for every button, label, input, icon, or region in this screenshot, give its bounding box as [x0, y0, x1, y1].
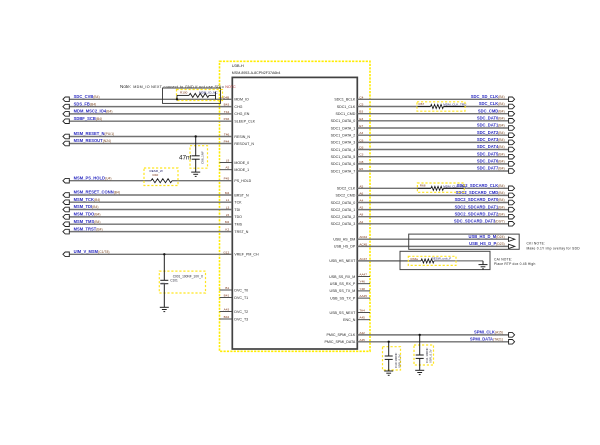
svg-text:MSM_TDO(B4): MSM_TDO(B4) — [74, 212, 101, 217]
svg-text:SDC1_CMD: SDC1_CMD — [336, 112, 356, 116]
svg-text:SDC_DAT2(B4): SDC_DAT2(B4) — [477, 130, 505, 135]
svg-text:MSM_RESET_CONN(B4): MSM_RESET_CONN(B4) — [74, 190, 120, 195]
svg-text:USB_HS_D_P(D23): USB_HS_D_P(D23) — [469, 241, 504, 246]
svg-text:SDC1_DATA_4: SDC1_DATA_4 — [331, 148, 356, 152]
svg-text:CHG: CHG — [234, 105, 242, 109]
svg-text:U3B-H: U3B-H — [232, 63, 244, 68]
svg-text:E5: E5 — [359, 167, 363, 171]
svg-text:TRST_N: TRST_N — [234, 230, 248, 234]
svg-text:UIM_V_MSM(C1/T8): UIM_V_MSM(C1/T8) — [74, 249, 110, 254]
svg-text:SDC_DAT4(B4): SDC_DAT4(B4) — [477, 144, 505, 149]
svg-text:USB_HS_DM: USB_HS_DM — [333, 238, 355, 242]
resistor R100 on MDM_IO — [177, 90, 223, 101]
group box around NEXT resistor — [400, 251, 490, 269]
svg-text:C4: C4 — [359, 95, 363, 99]
ground for USB_HS_NEXT resistor — [482, 261, 484, 265]
svg-text:MDM_IO: MDM_IO — [234, 98, 249, 102]
svg-text:SDC_SD_CLK(B4): SDC_SD_CLK(B4) — [471, 94, 505, 99]
off-page connector for MSM_TDO — [63, 215, 69, 220]
pin stub DVC_T1 — [220, 297, 233, 299]
svg-text:USB_HS_NEXT: USB_HS_NEXT — [329, 259, 356, 263]
svg-text:SDC2_SDCARD_DAT0(B4): SDC2_SDCARD_DAT0(B4) — [455, 197, 505, 202]
off-page connector for SDC_DAT1 — [509, 126, 515, 131]
svg-text:AC45: AC45 — [359, 242, 367, 246]
off-page connector for SDC2_SDCARD_DAT2 — [509, 214, 515, 219]
svg-text:R100: R100 — [180, 91, 188, 95]
svg-text:TCK: TCK — [234, 201, 242, 205]
svg-text:A2: A2 — [359, 220, 363, 224]
off-page connector for MSM_PS_HOLD — [63, 178, 69, 183]
off-page connector for SDC2_SDCARD_CLK — [509, 186, 515, 191]
svg-text:USB_SS_RX_M: USB_SS_RX_M — [329, 275, 355, 279]
svg-text:USB_SS_TX_P: USB_SS_TX_P — [330, 296, 356, 300]
wire net SPMI_DATA — [357, 341, 508, 343]
capacitor C101 on UIM_V_MSM — [159, 254, 205, 307]
off-page connector for SDC_DAT4 — [509, 147, 515, 152]
wire net SDC2_SDCARD_CMD — [357, 194, 508, 196]
svg-text:SDC1_DATA_2: SDC1_DATA_2 — [331, 134, 356, 138]
svg-text:C8: C8 — [359, 160, 363, 164]
svg-text:P46: P46 — [224, 117, 230, 121]
svg-text:X5R_6.3V: X5R_6.3V — [397, 354, 401, 368]
svg-text:R67: R67 — [419, 102, 425, 106]
pin stub USB_SS_NEXT — [357, 312, 370, 314]
wire net SDC2_SDCARD_CLK (right segment) — [444, 187, 509, 189]
svg-text:TDO: TDO — [234, 215, 242, 219]
svg-text:MODE_0: MODE_0 — [234, 161, 249, 165]
svg-text:L9: L9 — [226, 159, 230, 163]
svg-text:MDM_IO_NC: MDM_IO_NC — [199, 91, 218, 95]
svg-text:A42: A42 — [359, 331, 365, 335]
svg-text:SDC2_CMD: SDC2_CMD — [336, 194, 356, 198]
junction on UIM_V_MSM at C101 tap — [163, 253, 165, 255]
svg-text:R33a: R33a — [411, 257, 419, 261]
svg-text:SPMI_CLK(A15): SPMI_CLK(A15) — [474, 330, 503, 335]
pin stub USB_SS_RX_P — [357, 283, 370, 285]
svg-text:E7: E7 — [359, 124, 363, 128]
svg-text:MSM_TMS(B4): MSM_TMS(B4) — [74, 219, 101, 224]
svg-text:B42: B42 — [224, 315, 230, 319]
svg-text:SDC_CMD(B4): SDC_CMD(B4) — [478, 108, 505, 113]
off-page connector for SDC_SD_CLK — [509, 97, 515, 102]
svg-text:SDC_DAT0(B4): SDC_DAT0(B4) — [477, 116, 505, 121]
svg-text:SDC_SDCARD_DAT3(D0/7): SDC_SDCARD_DAT3(D0/7) — [454, 219, 505, 224]
svg-text:ENC_N: ENC_N — [343, 318, 356, 322]
svg-text:USB_HS_D_M(D24): USB_HS_D_M(D24) — [469, 234, 505, 239]
svg-text:SDC1_BCLK: SDC1_BCLK — [334, 98, 356, 102]
svg-text:USB_SS_RX_P: USB_SS_RX_P — [330, 282, 356, 286]
svg-text:SDC1_DATA_7: SDC1_DATA_7 — [331, 169, 356, 173]
svg-text:SDBF_SCB(B4): SDBF_SCB(B4) — [74, 116, 103, 121]
svg-text:DVC_T2: DVC_T2 — [234, 310, 248, 314]
off-page connector for SDC_DAT5 — [509, 154, 515, 159]
IC U1 MSM body rectangle — [232, 77, 357, 349]
off-page connector for SDS_FB — [63, 104, 69, 109]
svg-text:SDC_DAT3(B4): SDC_DAT3(B4) — [477, 137, 505, 142]
svg-text:SDC2_DATA_2: SDC2_DATA_2 — [331, 215, 356, 219]
svg-text:G12: G12 — [223, 250, 229, 254]
off-page connector for MSM_RESET_CONN — [63, 193, 69, 198]
svg-text:PMIC_SPMI_DATA: PMIC_SPMI_DATA — [324, 340, 355, 344]
wire net SDC_CMD — [357, 113, 508, 115]
svg-text:SDC_CLK(B4): SDC_CLK(B4) — [479, 101, 505, 106]
svg-text:E3: E3 — [359, 117, 363, 121]
svg-text:DVC_T1: DVC_T1 — [234, 296, 248, 300]
pin stub MODE_0 — [220, 162, 233, 164]
capacitor C30 on SPMI_DATA — [383, 342, 402, 371]
svg-text:A4: A4 — [359, 199, 363, 203]
off-page connector for SPMI_DATA — [509, 340, 515, 345]
wire net MSM_TMS — [69, 223, 232, 225]
svg-text:B3: B3 — [359, 110, 363, 114]
svg-text:R40: R40 — [153, 173, 159, 177]
svg-text:SDC2_DATA_3: SDC2_DATA_3 — [331, 222, 356, 226]
svg-text:L3: L3 — [226, 206, 230, 210]
svg-text:SDC1_DATA_5: SDC1_DATA_5 — [331, 155, 356, 159]
svg-text:DVC_T3: DVC_T3 — [234, 317, 248, 321]
svg-text:SDC2_SDCARD_DAT2(B4): SDC2_SDCARD_DAT2(B4) — [455, 211, 505, 216]
svg-text:B41: B41 — [224, 294, 230, 298]
capacitor C88 47nF on MSM_RESET_N — [179, 137, 207, 173]
wire net USB_HS_NEXT (left segment) — [357, 260, 421, 262]
off-page connector for UIM_V_MSM — [63, 252, 69, 257]
svg-text:USB_SS_TX_M: USB_SS_TX_M — [330, 289, 356, 293]
capacitor C31 on SPMI_CLK — [414, 335, 434, 370]
svg-text:SDC_CVB(B4): SDC_CVB(B4) — [74, 94, 100, 99]
svg-text:A5: A5 — [359, 206, 363, 210]
off-page connector for MSM_RESOUT — [63, 141, 69, 146]
wire net SDC_DAT0 — [357, 120, 508, 122]
svg-text:P44: P44 — [224, 140, 230, 144]
svg-text:T44: T44 — [224, 110, 230, 114]
svg-text:CHG_EN: CHG_EN — [234, 112, 249, 116]
svg-text:SDS_FB(B4): SDS_FB(B4) — [74, 101, 97, 106]
svg-text:PMIC_SPMI_CLK: PMIC_SPMI_CLK — [327, 333, 356, 337]
svg-text:SPMI_DATA(TA21): SPMI_DATA(TA21) — [470, 337, 503, 342]
wire net SDBF_SCB — [69, 120, 232, 122]
ground for C30 — [384, 371, 393, 375]
svg-text:MSM_TCK(B4): MSM_TCK(B4) — [74, 197, 101, 202]
off-page connector for SDBF_SCB — [63, 119, 69, 124]
wire net MSM_PS_HOLD (left segment) — [69, 180, 151, 182]
wire net SDC_CLK (right segment) — [444, 106, 509, 108]
svg-text:L5: L5 — [226, 213, 230, 217]
ground for C101 — [160, 307, 169, 311]
svg-text:Y48: Y48 — [359, 287, 365, 291]
pin stub DVC_T2 — [220, 311, 233, 313]
wire net USB_HS_D_P — [357, 245, 508, 247]
wire net SDC_DAT4 — [357, 149, 508, 151]
wire net MSM_RESET_CONN — [69, 194, 232, 196]
svg-text:P45: P45 — [224, 177, 230, 181]
svg-text:SDC_DAT6(B4): SDC_DAT6(B4) — [477, 159, 505, 164]
wire net MSM_RESET_N — [69, 136, 232, 138]
svg-text:SDC2_SDCARD_DAT1(B4): SDC2_SDCARD_DAT1(B4) — [455, 204, 505, 209]
svg-text:SDC1_DATA_3: SDC1_DATA_3 — [331, 141, 356, 145]
wire net MSM_TRST — [69, 231, 232, 233]
off-page connector for SDC_CVB — [63, 97, 69, 102]
resistor R40 series on MSM_PS_HOLD — [144, 168, 178, 186]
svg-text:C5: C5 — [359, 103, 363, 107]
off-page connector for SDC2_SDCARD_DAT0 — [509, 200, 515, 205]
svg-text:MDM_CLK_TRU: MDM_CLK_TRU — [443, 184, 466, 188]
svg-text:SDC1_DATA_0: SDC1_DATA_0 — [331, 119, 356, 123]
off-page connector for MSM_TMS — [63, 222, 69, 227]
off-page connector for SDC2_SDCARD_DAT1 — [509, 207, 515, 212]
pin stub USB_SS_TX_M — [357, 290, 370, 292]
wire net SDC_DAT2 — [357, 134, 508, 136]
off-page connector for SDC_CLK — [509, 104, 515, 109]
svg-text:C3: C3 — [359, 153, 363, 157]
off-page connector for SDC_CMD — [509, 111, 515, 116]
off-page connector for SDC_DAT0 — [509, 119, 515, 124]
ground for C88 — [191, 172, 200, 176]
svg-text:PS_HOLD: PS_HOLD — [234, 179, 251, 183]
svg-text:MDM_CLK_TRU: MDM_CLK_TRU — [443, 102, 466, 106]
wire from R100 down to MDM_IO net — [176, 95, 178, 99]
off-page connector for SDC_DAT7 — [509, 169, 515, 174]
svg-text:A8: A8 — [359, 213, 363, 217]
svg-text:CAI NOTE:: CAI NOTE: — [494, 257, 512, 261]
svg-text:T46: T46 — [224, 133, 230, 137]
wire net SDC2_SDCARD_CLK (left segment) — [357, 187, 431, 189]
wire net SDC_CLK (left segment) — [357, 106, 430, 108]
svg-text:B1: B1 — [225, 286, 229, 290]
off-page connector for MDM_MSC2_IO4 — [63, 112, 69, 117]
wire net SDC_SDCARD_DAT3 — [357, 223, 508, 225]
svg-text:AD44: AD44 — [359, 235, 367, 239]
svg-text:X5R_6.3V: X5R_6.3V — [428, 349, 432, 363]
wire net USB_HS_NEXT (right segment) — [434, 260, 483, 262]
arrow terminal USB_HS_D_M — [509, 237, 515, 241]
junction on MDM_IO at R100 tap — [176, 98, 178, 100]
junction on SPMI_DATA at C30 tap — [388, 341, 390, 343]
svg-text:RESW_usb_F: RESW_usb_F — [432, 256, 452, 260]
pin stub DVC_T0 — [220, 289, 233, 291]
off-page connector for MSM_RESET_N — [63, 134, 69, 139]
svg-text:CKI NOTE:: CKI NOTE: — [527, 242, 546, 246]
svg-text:TMS: TMS — [234, 223, 242, 227]
wire net SDC_DAT7 — [357, 170, 508, 172]
svg-text:MSM_PS_HOLD(U4): MSM_PS_HOLD(U4) — [74, 175, 112, 180]
svg-text:MSM_TDI(B4): MSM_TDI(B4) — [74, 204, 99, 209]
off-page connector for SPMI_CLK — [509, 333, 515, 338]
svg-text:Y46: Y46 — [359, 280, 365, 284]
svg-text:RESOUT_N: RESOUT_N — [234, 142, 254, 146]
svg-text:M4: M4 — [225, 191, 230, 195]
svg-text:AA45: AA45 — [359, 294, 367, 298]
wire net MSM_TCK — [69, 201, 232, 203]
wire net MSM_TDI — [69, 209, 232, 211]
svg-text:SLEEP_CLK: SLEEP_CLK — [234, 120, 255, 124]
svg-text:USB_SS_NEXT: USB_SS_NEXT — [330, 311, 357, 315]
off-page connector for MSM_TCK — [63, 200, 69, 205]
svg-text:AA47: AA47 — [359, 273, 367, 277]
svg-text:SDC_DAT5(B4): SDC_DAT5(B4) — [477, 151, 505, 156]
off-page connector for SDC2_SDCARD_CMD — [509, 193, 515, 198]
pin stub ENC_N — [357, 319, 370, 321]
junction on MSM_RESET_N at C88 tap — [195, 135, 197, 137]
pin stub USB_SS_TX_P — [357, 297, 370, 299]
resistor R33a to ground on USB_HS_NEXT — [408, 256, 456, 265]
ground for C31 — [415, 370, 424, 374]
wire net MDM_MSC2_IO4 — [69, 113, 232, 115]
resistor R68 series on SDC2_SDCARD_CLK — [417, 183, 466, 192]
svg-text:SDC1_CLK: SDC1_CLK — [337, 105, 356, 109]
wire net SPMI_CLK — [357, 334, 508, 336]
svg-text:A5: A5 — [359, 184, 363, 188]
svg-text:A6: A6 — [359, 191, 363, 195]
wire net SDC2_SDCARD_DAT2 — [357, 216, 508, 218]
off-page connector for SDC_SDCARD_DAT3 — [509, 222, 515, 227]
wire loop around R100 — [163, 88, 221, 103]
wire net SDC_SD_CLK — [357, 98, 508, 100]
svg-text:AC47: AC47 — [359, 257, 367, 261]
svg-text:TDI: TDI — [234, 208, 240, 212]
off-page connector for MSM_TRST — [63, 229, 69, 234]
svg-text:MSM_RESOUT(N24): MSM_RESOUT(N24) — [74, 138, 111, 143]
svg-text:A3: A3 — [359, 131, 363, 135]
hierarchy highlight box (yellow dashed) around U1 — [220, 61, 371, 351]
svg-text:A5: A5 — [225, 166, 229, 170]
svg-text:D3: D3 — [359, 146, 363, 150]
svg-text:SDC2_DATA_1: SDC2_DATA_1 — [331, 208, 356, 212]
wire net SDC2_SDCARD_DAT1 — [357, 209, 508, 211]
wire net SDC2_SDCARD_DAT0 — [357, 202, 508, 204]
svg-text:SDC_DAT1(B4): SDC_DAT1(B4) — [477, 123, 505, 128]
svg-text:VREF_PM_CH: VREF_PM_CH — [234, 253, 259, 257]
resistor R67 series on SDC_CLK — [417, 102, 466, 111]
wire net USB_HS_D_M — [357, 238, 508, 240]
svg-text:Place RTP dox 0.45 High: Place RTP dox 0.45 High — [494, 262, 536, 266]
wire net SDC_DAT5 — [357, 156, 508, 158]
svg-text:USB_HS_DP: USB_HS_DP — [334, 245, 356, 249]
svg-text:MSM_RESET_N(PU/1): MSM_RESET_N(PU/1) — [74, 131, 115, 136]
svg-text:R68: R68 — [420, 183, 426, 187]
svg-text:MDM_MSC2_IO4(B4): MDM_MSC2_IO4(B4) — [74, 109, 113, 114]
svg-text:C6: C6 — [359, 138, 363, 142]
svg-text:MSM_TRST(B4): MSM_TRST(B4) — [74, 226, 103, 231]
svg-text:RESIN_N: RESIN_N — [234, 135, 250, 139]
wire net SDC_DAT6 — [357, 163, 508, 165]
wire net MSM_RESOUT — [69, 143, 232, 145]
wire net MSM_PS_HOLD (right segment) — [172, 180, 232, 182]
off-page connector for SDC_DAT6 — [509, 162, 515, 167]
svg-text:100n: 100n — [161, 281, 167, 285]
svg-text:DVC_T0: DVC_T0 — [234, 288, 248, 292]
pin stub DVC_T3 — [220, 318, 233, 320]
wire net SDC_DAT1 — [357, 127, 508, 129]
arrow terminal USB_HS_D_P — [509, 244, 515, 248]
svg-text:MSM-8953-A-8CPN2F37A6b4: MSM-8953-A-8CPN2F37A6b4 — [232, 71, 281, 75]
svg-text:SDC1_DATA_1: SDC1_DATA_1 — [331, 126, 356, 130]
group box around USB HS diff pair — [409, 234, 520, 249]
svg-text:TA4: TA4 — [359, 309, 365, 313]
svg-text:SDC2_CLK: SDC2_CLK — [337, 187, 356, 191]
svg-text:K2: K2 — [225, 228, 229, 232]
wire net SDS_FB — [69, 106, 232, 108]
svg-text:L1: L1 — [226, 198, 230, 202]
off-page connector for SDC_DAT3 — [509, 140, 515, 145]
off-page connector for MSM_TDI — [63, 207, 69, 212]
svg-text:A45: A45 — [359, 338, 365, 342]
wire net UIM_V_MSM — [69, 253, 232, 255]
svg-text:A45: A45 — [359, 316, 365, 320]
wire net SDC_CVB — [69, 98, 232, 100]
svg-text:B43: B43 — [224, 103, 230, 107]
wire net MSM_TDO — [69, 216, 232, 218]
svg-text:BRST_N: BRST_N — [234, 193, 249, 197]
svg-text:C88_1NF: C88_1NF — [201, 151, 205, 164]
svg-text:SDC1_DATA_6: SDC1_DATA_6 — [331, 162, 356, 166]
svg-text:A43: A43 — [224, 308, 230, 312]
svg-text:M2: M2 — [225, 220, 230, 224]
off-page connector for SDC_DAT2 — [509, 133, 515, 138]
wire net SDC_DAT3 — [357, 141, 508, 143]
svg-text:Make 0.1Y imp overlay for SDD: Make 0.1Y imp overlay for SDD — [527, 246, 581, 250]
pin stub USB_SS_RX_M — [357, 276, 370, 278]
svg-text:47nf: 47nf — [179, 155, 192, 162]
pin stub MODE_1 — [220, 169, 233, 171]
svg-text:C101: C101 — [170, 279, 178, 283]
junction on SPMI_CLK at C31 tap — [419, 334, 421, 336]
svg-text:SDC2_DATA_0: SDC2_DATA_0 — [331, 201, 356, 205]
svg-text:SDC_DAT7(B4): SDC_DAT7(B4) — [477, 166, 505, 171]
svg-text:MODE_1: MODE_1 — [234, 168, 249, 172]
